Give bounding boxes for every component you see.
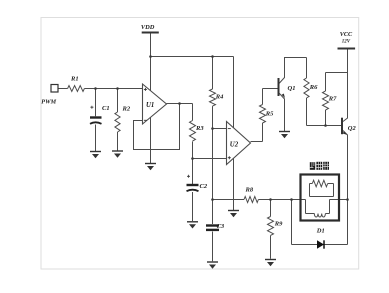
svg-text:D1: D1 [316, 227, 325, 234]
svg-text:R6: R6 [309, 84, 318, 91]
svg-text:R9: R9 [274, 220, 283, 227]
svg-text:R3: R3 [195, 125, 204, 132]
svg-text:Q2: Q2 [348, 125, 357, 132]
svg-text:VDD: VDD [141, 24, 155, 31]
svg-text:R8: R8 [245, 186, 254, 193]
svg-text:PWM: PWM [41, 99, 56, 106]
svg-text:R1: R1 [70, 76, 79, 83]
svg-text:R4: R4 [215, 94, 224, 101]
svg-text:C2: C2 [200, 183, 208, 190]
svg-text:R7: R7 [328, 96, 337, 103]
svg-text:U1: U1 [146, 102, 154, 109]
svg-text:12V: 12V [342, 40, 351, 45]
svg-text:U2: U2 [230, 141, 239, 148]
svg-text:R5: R5 [265, 111, 274, 118]
svg-text:R2: R2 [122, 106, 131, 113]
svg-text:C1: C1 [102, 105, 110, 112]
svg-text:VCC: VCC [340, 31, 353, 38]
svg-text:Q1: Q1 [288, 85, 296, 92]
svg-text:C3: C3 [217, 223, 225, 230]
